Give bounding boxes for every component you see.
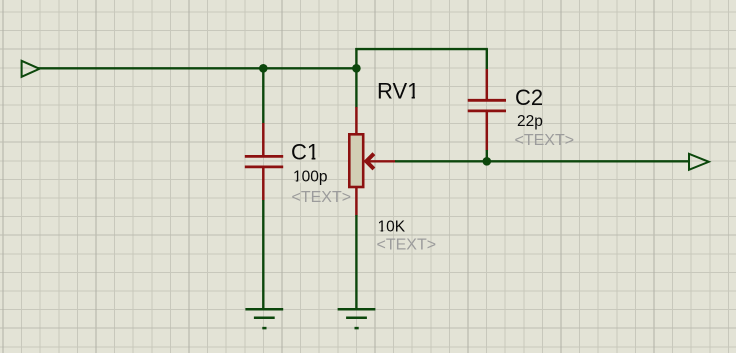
ground (right, RV1)	[338, 309, 376, 328]
wire C2 top vertical	[486, 49, 488, 69]
wire wiper to output terminal	[395, 160, 690, 162]
svg-text:10K: 10K	[378, 219, 406, 236]
output terminal	[689, 154, 709, 170]
input terminal	[22, 61, 40, 77]
svg-text:<TEXT>: <TEXT>	[377, 237, 437, 254]
capacitor C2	[468, 69, 506, 151]
svg-text:<TEXT>: <TEXT>	[292, 189, 352, 206]
svg-text:22p: 22p	[517, 113, 543, 130]
label C2	[515, 85, 543, 110]
wire RV1 vertical (top, to top net)	[355, 48, 357, 108]
label C1	[291, 140, 319, 165]
wire C1 to ground	[262, 200, 264, 309]
value 22p	[517, 113, 543, 130]
svg-text:<TEXT>: <TEXT>	[515, 132, 575, 149]
wire C1 branch vertical (top)	[262, 67, 264, 123]
wire input to RV1 top junction	[38, 67, 358, 69]
capacitor C1	[245, 123, 283, 201]
potentiometer RV1	[349, 107, 395, 216]
svg-text:C2: C2	[515, 85, 543, 110]
value 10K	[377, 219, 405, 236]
property text C2	[515, 132, 575, 149]
ground (left, C1)	[245, 309, 283, 328]
node junction at C2 bottom / output net	[483, 157, 492, 166]
value 100p	[293, 169, 328, 186]
wire RV1 to ground	[355, 215, 357, 309]
svg-text:100p: 100p	[293, 169, 327, 186]
svg-text:C1: C1	[291, 140, 319, 165]
property text RV1	[377, 237, 437, 254]
svg-text:RV1: RV1	[377, 79, 419, 104]
label RV1	[377, 79, 420, 104]
wire C2 bottom to output net	[486, 150, 488, 162]
node junction at RV1 top	[352, 64, 361, 73]
node junction at C1 tap	[259, 64, 268, 73]
property text C1	[292, 189, 352, 206]
wire top net RV1 to C2	[355, 48, 488, 50]
